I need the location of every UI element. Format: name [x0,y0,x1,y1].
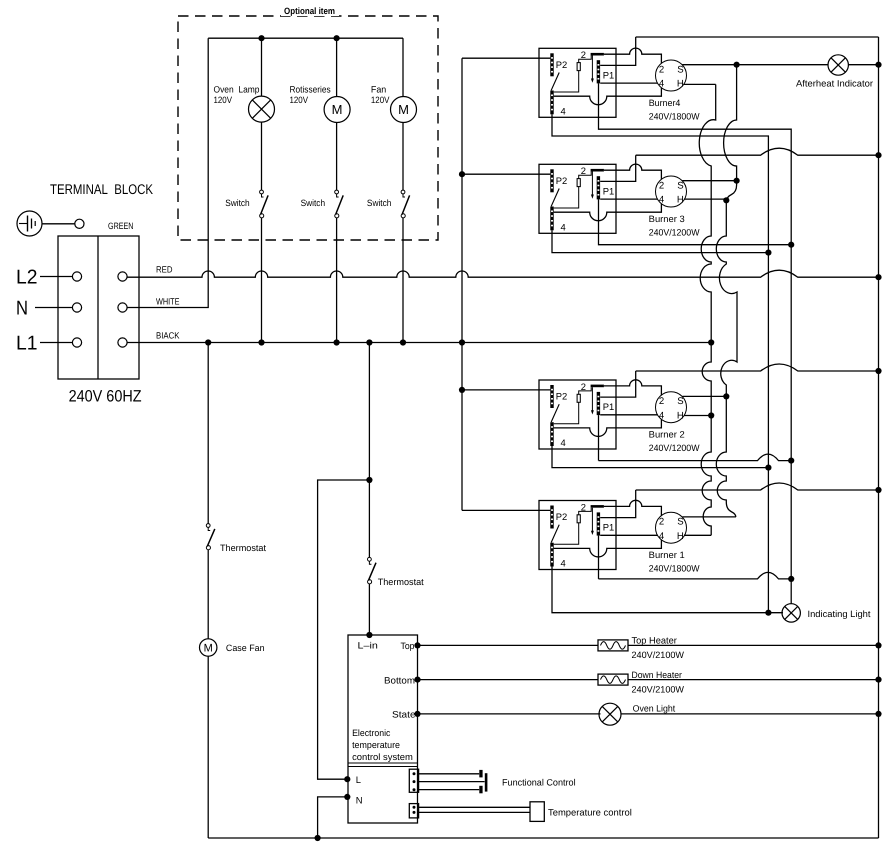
functional connector [409,769,418,792]
svg-text:N: N [356,795,363,806]
junction B3 busB [788,242,794,248]
oven light lamp [599,703,621,725]
svg-text:L–in: L–in [358,641,378,651]
junction State [414,711,420,717]
burner element Burner_1 [656,512,687,543]
svg-text:Burner 3: Burner 3 [649,214,685,224]
svg-text:240V/2100W: 240V/2100W [632,685,685,695]
wire fan switch down [402,218,404,343]
wire busB mid [790,245,792,461]
wiper arrow Burner4 [591,56,593,80]
junction BLACK [205,339,211,345]
wire 2 to element Burner_1 [604,500,662,515]
switch lever Burner_3 [551,189,559,207]
wire lamp upper [261,38,263,96]
junction P2 feed B2 [459,387,465,393]
svg-text:H: H [677,79,684,90]
svg-text:N: N [16,298,28,320]
terminal 4 bar Burner4 [550,91,553,115]
junction H B2 [708,412,714,418]
svg-text:4: 4 [561,437,566,448]
svg-text:Burner 2: Burner 2 [649,430,685,440]
svg-text:P1: P1 [603,185,614,196]
svg-text:Functional Control: Functional Control [502,778,576,788]
junction L-in [366,632,372,638]
green terminal circle [75,219,84,228]
wire busA mid [767,253,769,613]
wire right bus [878,37,880,838]
wire lamp to switch [261,122,263,190]
junction BLACK [708,339,714,345]
wire temp 1 [419,806,530,808]
junction Top [414,642,420,648]
svg-text:P2: P2 [556,511,567,522]
terminal P1 bar Burner_1 [597,512,600,535]
control box divider [348,762,418,764]
junction rail B2 bus [875,368,881,374]
wire BLACK L1 bus [127,342,711,344]
svg-text:120V: 120V [290,95,309,105]
svg-text:P1: P1 [603,401,614,412]
svg-text:Down Heater: Down Heater [632,670,682,680]
top heater element [598,640,628,651]
wire 4 dip Burner_2 [554,419,662,436]
junction BLACK [334,339,340,345]
svg-text:Oven Lamp: Oven Lamp [214,85,260,95]
svg-text:temperature: temperature [352,740,400,750]
svg-text:WHITE: WHITE [156,297,180,307]
junction BLACK [400,339,406,345]
junction S B4 [734,62,740,68]
wire thermostat1 to fan [207,550,209,639]
switch block Burner_3 [539,164,616,233]
svg-text:Switch: Switch [225,198,250,208]
svg-text:P2: P2 [556,175,567,186]
svg-text:2: 2 [581,381,586,392]
svg-text:Thermostat: Thermostat [378,577,424,587]
junction rotisseries bus [334,35,340,41]
svg-text:State: State [392,710,416,720]
wire 2 to resistor Burner_1 [579,508,592,515]
svg-text:control system: control system [352,752,413,762]
wire RED L2 bus [127,270,878,277]
svg-text:Switch: Switch [367,198,392,208]
wire H chain column [699,84,715,535]
svg-text:2: 2 [659,65,664,76]
wire resistor to 4 Burner_3 [554,187,579,208]
wire P2 feed vertical [461,58,463,510]
svg-text:BIACK: BIACK [156,331,180,341]
wire P1 to element Burner_3 [600,198,657,200]
wire busB lower [790,461,792,579]
svg-text:4: 4 [659,531,665,542]
junction afterheat bus [875,62,881,68]
svg-text:H: H [677,195,684,206]
wire 4 dip Burner_3 [554,204,662,221]
wire resistor to 4 Burner_1 [554,523,579,544]
junction oven light bus [875,711,881,717]
wiper arrow Burner_2 [591,387,593,411]
svg-text:Oven Light: Oven Light [633,704,676,714]
wire B4 4 collector [552,114,768,252]
wire fan to switch [402,123,404,191]
junction BLACK [366,339,372,345]
terminal 2 bar Burner4 [591,53,604,56]
svg-text:240V/1800W: 240V/1800W [649,111,700,121]
svg-text:H: H [677,410,684,421]
junction BLACK [459,339,465,345]
svg-text:P1: P1 [603,69,614,80]
terminal L2 lead [40,276,72,278]
wire P1 rail Burner_3 [600,155,636,181]
terminal 2 bar Burner_3 [591,169,604,172]
svg-text:4: 4 [659,195,665,206]
terminal L2 left contact [72,272,81,281]
junction N bottom [315,835,321,841]
indicating light lamp [782,604,800,622]
burner element Burner4 [656,60,687,91]
switch S3 [401,190,405,194]
terminal 2 bar Burner_2 [591,385,604,388]
switch lever Burner_2 [551,404,559,422]
junction rail B3 bus [875,152,881,158]
wire 2 to resistor Burner4 [579,56,592,63]
svg-text:4: 4 [659,410,665,421]
terminal P2 bar Burner4 [550,53,553,76]
svg-text:TERMINAL BLOCK: TERMINAL BLOCK [50,181,154,197]
svg-text:Afterheat Indicator: Afterheat Indicator [796,79,873,89]
wire Top heater [418,644,599,646]
wire H B2 [684,415,711,417]
wire P1 to element Burner4 [600,82,657,84]
wire H B1 [684,534,711,536]
rotisseries motor M1 [324,97,350,123]
svg-text:M: M [398,102,409,117]
svg-text:H: H [677,531,684,542]
wire functional 2 [417,781,484,783]
wire bottom bus [208,837,878,839]
terminal 2 bar Burner_1 [591,505,604,508]
thermostat 2 [368,557,372,561]
terminal P1 bar Burner_3 [597,176,600,199]
wire rot upper [336,38,338,96]
wire S B3 [683,180,737,182]
svg-text:4: 4 [561,105,566,116]
junction B3 busA [765,250,771,256]
junction P2 feed B3 [459,171,465,177]
wire P2 Burner_1 [462,509,550,511]
svg-text:Fan: Fan [371,85,386,95]
junction lamp bus [258,35,264,41]
switch block Burner4 [539,48,616,117]
terminal P2 bar Burner_2 [550,385,553,408]
wire B3 4 collector [552,230,768,252]
terminal P2 bar Burner_3 [550,169,553,192]
temperature connector [409,804,418,818]
switch lever Burner_1 [551,525,559,543]
temperature control box [530,802,544,822]
svg-text:L2: L2 [16,267,38,289]
wire L branch [318,480,370,779]
wire oven light line [418,713,601,715]
wire fan upper [402,38,404,96]
junction BLACK [258,339,264,345]
resistor Burner_1 [577,515,580,523]
svg-text:Burner4: Burner4 [649,98,681,108]
junction light busA [765,610,771,616]
junction L [344,776,350,782]
svg-text:S: S [677,396,683,407]
junction top heater bus [875,642,881,648]
junction rail B1 bus [875,487,881,493]
svg-text:P2: P2 [556,391,567,402]
terminal P1 bar Burner4 [597,60,600,83]
svg-text:Top Heater: Top Heater [632,636,677,646]
wire B1 4 to light [552,567,783,613]
oven lamp [249,96,275,122]
svg-text:Temperature control: Temperature control [548,808,632,818]
wire P1 rail Burner_2 [600,371,636,397]
wire 2 to resistor Burner_2 [579,387,592,394]
wire B2 4 collector [552,446,768,468]
case fan motor [200,639,217,656]
terminal L1 left contact [72,338,81,347]
wiper arrow Burner_3 [591,172,593,196]
svg-text:Top: Top [401,641,415,651]
terminal L1 right contact [118,338,127,347]
svg-text:120V: 120V [371,95,390,105]
svg-text:120V: 120V [214,95,233,105]
label Optional item [281,5,339,16]
resistor Burner4 [577,63,580,71]
svg-text:2: 2 [581,501,586,512]
resistor Burner_3 [577,179,580,187]
svg-text:Rotisseries: Rotisseries [290,85,332,95]
junction S B2 [723,393,729,399]
svg-text:M: M [204,642,213,654]
svg-text:240V/2100W: 240V/2100W [632,650,685,660]
svg-text:Optional item: Optional item [284,6,335,16]
wire 2 to element Burner_2 [604,380,662,395]
svg-text:Burner 1: Burner 1 [649,550,685,560]
wire S B1 [683,516,736,518]
terminal 4 bar Burner_1 [550,543,553,567]
svg-text:2: 2 [659,181,664,192]
junction B1 busB [788,576,794,582]
junction down heater bus [875,677,881,683]
svg-text:L: L [356,774,361,785]
wire resistor to 4 Burner4 [554,71,579,92]
wire case fan down [207,656,209,838]
wire rot switch down [336,218,338,343]
optional item dashed box [178,16,438,240]
afterheat indicator lamp [828,55,848,75]
switch block Burner_1 [539,501,616,570]
wire P2 Burner4 [462,57,550,59]
terminal N right contact [118,303,127,312]
wire S B2 [683,395,727,397]
junction Bottom [414,677,420,683]
wire optional top bus [208,37,403,39]
svg-text:2: 2 [581,49,586,60]
wire 2 to element Burner_3 [604,164,662,179]
switch block Burner_2 [539,380,616,449]
junction B2 busB [788,458,794,464]
junction H B3 [723,197,729,203]
svg-text:GREEN: GREEN [108,221,134,231]
wire thermostat2 to box [368,584,370,635]
fan motor M2 [391,97,417,123]
svg-text:240V 60HZ: 240V 60HZ [69,388,142,406]
svg-text:2: 2 [581,165,586,176]
terminal P1 bar Burner_2 [597,392,600,415]
junction B2 busA [765,465,771,471]
ground symbol [17,211,42,236]
svg-text:S: S [677,65,683,76]
switch lever Burner4 [551,73,559,91]
terminal L1 lead [40,342,72,344]
wire B1 P1 collector [598,536,600,579]
functional pins [479,770,482,778]
junction RED right bus [875,274,881,280]
wire P2 Burner_2 [462,389,550,391]
wire B2 P1 collector [598,415,600,461]
wire P1 rail Burner4 [600,37,636,65]
wire ground to green terminal [42,223,75,225]
wire afterheat to bus [848,64,878,66]
burner element Burner_2 [656,392,687,423]
terminal P2 bar Burner_1 [550,506,553,529]
svg-text:4: 4 [561,558,566,569]
wire H B3 [684,198,726,200]
wire 2 to element Burner4 [604,48,662,63]
wire rot to switch [336,123,338,191]
svg-text:4: 4 [659,79,665,90]
junction S B3 [734,178,740,184]
wire 4 dip Burner_1 [554,540,662,557]
svg-text:Electronic: Electronic [352,728,391,738]
wire busB to light [790,579,792,604]
svg-text:P1: P1 [603,522,614,533]
wire 2 to resistor Burner_3 [579,172,592,179]
wire P2 Burner_3 [462,173,550,175]
thermostat 1 [206,524,210,528]
resistor Burner_2 [577,394,580,402]
wire case fan upper [207,343,209,524]
svg-text:S: S [677,517,683,528]
wire P1 rail Burner_1 [600,490,636,518]
terminal N left contact [72,303,81,312]
svg-text:Switch: Switch [301,198,326,208]
wire functional 3 [417,789,479,791]
terminal block body [58,236,139,379]
terminal 4 bar Burner_3 [550,207,553,231]
wire lamp switch down [261,218,263,343]
burner element Burner_3 [656,176,687,207]
wire resistor to 4 Burner_2 [554,402,579,423]
svg-text:240V/1200W: 240V/1200W [649,227,700,237]
wiper arrow Burner_1 [591,508,593,532]
switch S2 [335,190,339,194]
wire P1 to element Burner_2 [600,414,657,416]
wire Down heater [418,679,599,681]
control box [348,635,418,823]
svg-text:4: 4 [561,221,566,232]
terminal 4 bar Burner_2 [550,422,553,446]
svg-text:P2: P2 [556,59,567,70]
wire 4 dip Burner4 [554,88,662,105]
terminal L2 right contact [118,272,127,281]
wire B3 P1 collector [599,199,792,244]
svg-text:RED: RED [156,265,173,275]
junction N [344,794,350,800]
svg-text:Thermostat: Thermostat [220,543,266,553]
svg-text:M: M [332,102,343,117]
switch S1 [260,190,264,194]
svg-text:L1: L1 [16,333,38,355]
junction L branch [366,477,372,483]
svg-text:2: 2 [659,396,664,407]
svg-text:S: S [677,181,683,192]
terminal N lead [35,307,72,309]
wire H B4 [684,83,716,85]
wire P1 to element Burner_1 [600,534,657,536]
wire functional 1 [417,773,479,775]
svg-text:Case Fan: Case Fan [226,643,265,653]
svg-text:240V/1800W: 240V/1800W [649,564,700,574]
wire L-in vertical upper [368,343,370,558]
wire WHITE neutral [127,38,208,307]
svg-text:Bottom: Bottom [384,676,415,686]
svg-text:2: 2 [659,517,664,528]
wire S B4 afterheat [683,64,829,66]
wire N [318,797,348,838]
wire S chain column [716,65,737,517]
wire B4 P1 collector [599,83,792,244]
down heater element [598,674,628,685]
svg-text:240V/1200W: 240V/1200W [649,443,700,453]
wire temp 2 [419,811,530,813]
svg-text:Indicating Light: Indicating Light [808,609,871,619]
